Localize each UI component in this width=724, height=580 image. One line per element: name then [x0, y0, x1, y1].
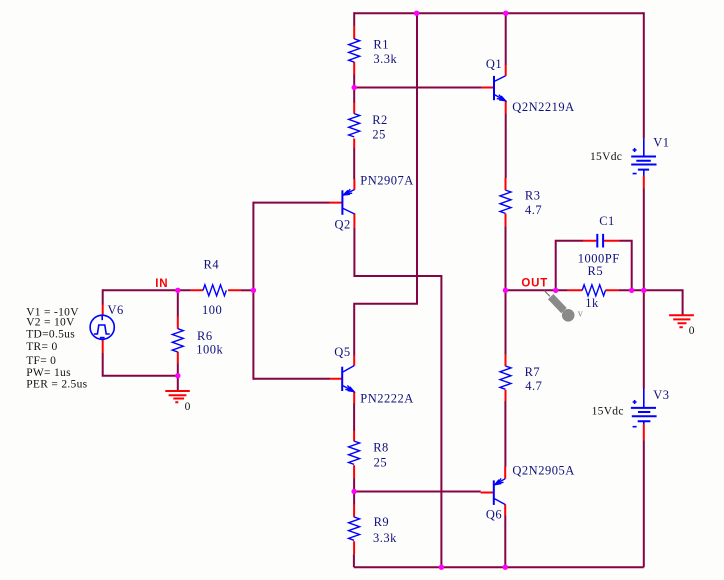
svg-text:Q5: Q5: [334, 345, 350, 359]
svg-text:R6: R6: [197, 329, 213, 343]
svg-text:R3: R3: [525, 188, 541, 202]
wire R1-R2 junction segment: [353, 74, 355, 102]
svg-text:Q2N2219A: Q2N2219A: [512, 100, 574, 114]
svg-text:25: 25: [374, 456, 388, 470]
wire top rail to Q5 collector: [354, 13, 417, 355]
resistor R5: [582, 285, 605, 296]
wire OUT rail left: [506, 289, 568, 291]
svg-text:100: 100: [202, 303, 222, 317]
svg-text:R2: R2: [372, 113, 388, 127]
wire to Q2 base: [253, 202, 329, 204]
resistor R8: [349, 441, 360, 464]
wire V6 bottom to R6 bottom: [103, 353, 178, 376]
source V6 pins: [102, 305, 104, 354]
resistor R5 pins: [568, 289, 619, 291]
wire R6 top stub: [177, 290, 179, 317]
svg-text:3.3k: 3.3k: [373, 531, 397, 545]
resistor R8 pins: [353, 431, 355, 479]
resistor R3: [500, 190, 511, 213]
resistor R9: [349, 517, 360, 540]
wire R1 top stub: [353, 12, 355, 26]
svg-text:R1: R1: [373, 38, 389, 52]
junction dot bottom rail B: [503, 565, 508, 570]
wire ground 0 left stem: [177, 376, 179, 391]
svg-text:3.3k: 3.3k: [373, 52, 397, 66]
svg-text:R4: R4: [204, 257, 220, 271]
source V6 pulse source: [90, 315, 114, 339]
resistor R4 pins: [191, 289, 241, 291]
svg-text:v: v: [578, 308, 583, 319]
transistor Q5 pins: [330, 355, 354, 403]
transistor Q2 pins: [329, 179, 354, 228]
voltage probe at OUT: [544, 291, 583, 322]
capacitor C1 pins: [583, 240, 619, 242]
source V3 pins: [643, 424, 645, 440]
svg-text:100k: 100k: [196, 343, 223, 357]
svg-text:R7: R7: [525, 365, 541, 379]
source V1 pins: [643, 176, 645, 189]
svg-text:R5: R5: [588, 264, 604, 278]
junction dot R8-R9: [351, 489, 356, 494]
svg-text:V2 = 10V: V2 = 10V: [26, 316, 75, 328]
svg-text:4.7: 4.7: [525, 203, 542, 217]
wire to Q5 base: [253, 378, 330, 380]
wire V1 column top: [643, 12, 645, 139]
junction dot top rail B: [503, 11, 508, 16]
svg-text:TR= 0: TR= 0: [26, 341, 57, 353]
svg-text:Q2N2905A: Q2N2905A: [512, 464, 574, 478]
resistor R1: [349, 39, 360, 62]
transistor Q6 pins: [481, 466, 506, 515]
resistor R2 pins: [353, 103, 355, 149]
junction dot R1-R2: [352, 85, 357, 90]
resistor R7 pins: [505, 355, 507, 401]
svg-text:PW= 1us: PW= 1us: [26, 367, 71, 379]
wire R2 to Q2 emitter: [353, 148, 355, 180]
svg-text:0: 0: [185, 401, 191, 413]
capacitor C1: [597, 234, 603, 248]
wire R9 top stub: [353, 492, 355, 505]
wire top rail: [354, 12, 644, 14]
junction dot input column: [251, 288, 256, 293]
svg-text:V6: V6: [108, 303, 124, 317]
ground 0 left: [165, 391, 190, 413]
wire C1 left leg: [556, 241, 584, 291]
source V1 battery: [643, 139, 645, 176]
resistor R4: [203, 285, 226, 296]
svg-text:V3: V3: [653, 388, 669, 402]
wire Q1 emitter to R3: [505, 114, 507, 178]
resistor R2: [349, 114, 360, 137]
wire Q5 emitter to R8: [353, 403, 355, 431]
wire R4 to input node column: [241, 289, 253, 291]
svg-text:15Vdc: 15Vdc: [592, 406, 624, 418]
ground 0 right: [669, 315, 695, 337]
source V3 battery: [643, 388, 645, 424]
wire Q6 collector to bottom rail: [504, 515, 506, 567]
wire R6 bottom stub: [177, 363, 179, 376]
wire Q2 collector to bottom rail: [354, 228, 441, 568]
svg-text:25: 25: [372, 128, 386, 142]
svg-text:R9: R9: [374, 515, 390, 529]
transistor Q1: [493, 76, 495, 100]
wire IN row: [103, 289, 191, 291]
wire junction to Q6 base: [354, 491, 481, 493]
resistor R6: [172, 329, 183, 352]
wire Q1 collector stub: [505, 13, 507, 65]
wire node A to Q1 base: [354, 87, 482, 89]
junction dot bottom rail A: [439, 565, 444, 570]
svg-text:15Vdc: 15Vdc: [590, 151, 622, 163]
wire V3 bottom stub: [643, 440, 645, 567]
svg-text:IN: IN: [155, 278, 168, 290]
resistor R1 pins: [353, 26, 355, 75]
svg-text:PER = 2.5us: PER = 2.5us: [26, 379, 87, 391]
svg-text:PN2907A: PN2907A: [360, 173, 414, 187]
svg-text:4.7: 4.7: [525, 379, 542, 393]
resistor R3 pins: [505, 178, 507, 227]
svg-text:Q6: Q6: [486, 508, 502, 522]
wire C1 right leg: [619, 241, 631, 291]
transistor Q6: [493, 480, 495, 505]
junction dot V1 column: [641, 288, 646, 293]
transistor Q5: [341, 367, 343, 391]
transistor Q2: [341, 190, 343, 215]
junction dot C1 right: [629, 288, 634, 293]
wire R7 to Q6 emitter: [504, 401, 506, 467]
svg-text:PN2222A: PN2222A: [360, 392, 414, 406]
transistor Q1 pins: [482, 65, 506, 114]
wire bottom rail: [354, 566, 644, 568]
junction dot OUT node: [503, 288, 508, 293]
svg-text:1k: 1k: [585, 296, 599, 310]
svg-text:V1: V1: [653, 136, 669, 150]
svg-text:TD=0.5us: TD=0.5us: [26, 329, 75, 341]
junction dot C1 left: [553, 288, 558, 293]
svg-text:C1: C1: [599, 214, 615, 228]
svg-text:OUT: OUT: [521, 278, 548, 290]
svg-text:Q2: Q2: [335, 218, 351, 232]
wire input node column: [252, 202, 254, 380]
junction dot R6 bottom: [175, 373, 180, 378]
wire V6 top stub: [102, 289, 104, 304]
resistor R7: [500, 366, 511, 389]
junction dot top rail A: [414, 11, 419, 16]
wire OUT rail right to ground: [619, 290, 683, 315]
wire R9 bottom stub: [353, 554, 355, 567]
wire R8 to node junction: [353, 478, 355, 491]
svg-text:TF= 0: TF= 0: [26, 355, 56, 367]
svg-text:0: 0: [689, 325, 695, 337]
wire V1 minus to V3 plus: [643, 188, 645, 388]
resistor R6 pins: [177, 317, 179, 364]
wire R3 to OUT to R7: [505, 226, 507, 355]
svg-text:R8: R8: [373, 441, 389, 455]
svg-text:Q1: Q1: [486, 57, 502, 71]
resistor R9 pins: [353, 505, 355, 555]
junction dot IN node: [175, 288, 180, 293]
